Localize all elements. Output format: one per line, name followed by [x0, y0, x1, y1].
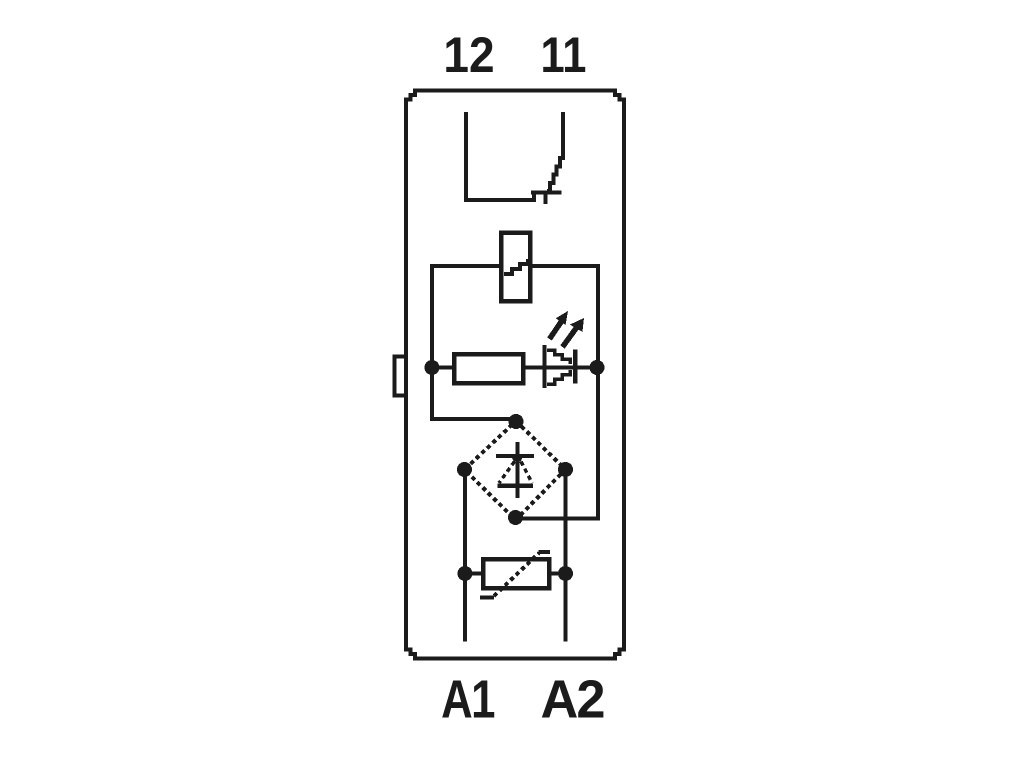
node left of resistor branch: [425, 360, 440, 375]
bridge inner diode triangle base: [498, 483, 534, 488]
svg-text:A2: A2: [540, 670, 603, 730]
contact fixed line (from 12): [464, 193, 562, 201]
node bridge left (~): [457, 462, 472, 477]
wire: loop left (coil to bridge + terminal): [432, 266, 516, 419]
contact tick: [544, 191, 548, 204]
varistor slash bottom tail: [480, 596, 494, 600]
side tab on left edge of body: [395, 357, 407, 396]
coil slash: [504, 259, 528, 274]
varistor slash (dotted diagonal): [494, 553, 539, 596]
contact lever (from 11): [561, 112, 565, 150]
wire: loop right (coil to bridge - terminal): [516, 266, 599, 519]
wire: right column to A2: [564, 470, 568, 642]
wire: left column to varistor: [465, 572, 483, 576]
bridge inner diode centerline: [516, 442, 520, 498]
bridge inner diode triangle right edge: [521, 462, 532, 484]
bridge inner diode triangle left edge: [499, 462, 515, 484]
bridge inner diode apex blob: [512, 457, 523, 462]
wire: left node to resistor: [432, 366, 454, 370]
varistor slash top tail: [539, 550, 551, 554]
node bridge top (+): [509, 414, 524, 429]
varistor RU: [483, 559, 549, 588]
wire: varistor to right column: [549, 572, 566, 576]
LED cathode bar: [573, 350, 578, 384]
LED emission arrow 2: [563, 327, 578, 347]
wire: pin 12 lead: [464, 112, 468, 200]
relay coil K1: [501, 233, 530, 302]
resistor R1: [454, 354, 523, 383]
wire: left column to A1: [463, 470, 467, 642]
bridge rectifier diamond: [465, 421, 566, 520]
LED D1 anode bar: [543, 345, 547, 388]
LED emission arrow 1: [550, 322, 562, 339]
wire: resistor through LED to right node: [523, 366, 597, 370]
LED triangle top edge: [547, 350, 570, 364]
svg-text:12: 12: [443, 28, 494, 83]
node bridge bottom (-): [508, 510, 523, 525]
node varistor left junction: [458, 566, 473, 581]
bridge inner diode cathode bar: [496, 454, 534, 458]
svg-text:11: 11: [541, 27, 587, 82]
node varistor right junction: [558, 566, 573, 581]
node right of LED branch: [590, 360, 605, 375]
LED triangle bottom edge: [547, 370, 570, 384]
module body outline: [406, 91, 624, 659]
node bridge right (~): [558, 462, 573, 477]
svg-text:A1: A1: [441, 670, 494, 729]
